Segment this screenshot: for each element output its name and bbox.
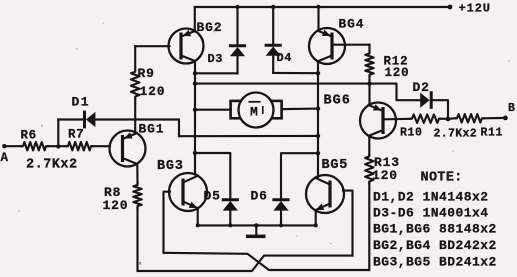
wire: node to R11: [448, 117, 455, 120]
svg-text:BG2: BG2: [197, 20, 223, 35]
wire: BG4 base to R12: [333, 44, 370, 46]
wire: BG2 base to R9: [135, 45, 169, 47]
wire: junction up to D1: [57, 120, 59, 147]
svg-text:D2: D2: [413, 80, 430, 95]
svg-text:R6: R6: [21, 129, 37, 143]
diode D6 (cathode up): [272, 198, 289, 201]
resistor R7 (2.7K): [66, 142, 93, 150]
wire: BG1 emitter down to R8: [136, 164, 138, 183]
wire: BG4 emitter to +12V rail: [317, 7, 319, 30]
svg-text:BG1,BG6 88148x2: BG1,BG6 88148x2: [373, 222, 497, 237]
node: D2 / R10 / R11 junction: [446, 117, 451, 122]
svg-text:BG5: BG5: [322, 158, 349, 173]
wire: BG2 emitter to +12V rail: [194, 7, 196, 32]
node: motor-left / bus junction: [193, 108, 197, 112]
wire: branch to D2 anode: [370, 84, 421, 101]
svg-text:D5: D5: [204, 189, 221, 204]
wire: D5 top stub from left bus: [195, 153, 230, 200]
node: D3 top rail junction: [235, 5, 239, 9]
ground symbol: [255, 225, 257, 234]
node: D5 stub / left bus junction: [193, 151, 197, 155]
wire: R11 to terminal B: [484, 117, 505, 120]
wire: D1 anode right, over R9 line, down to motor-right row: [95, 120, 179, 137]
node: D4 top rail junction: [271, 5, 275, 9]
resistor R6 (2.7K): [21, 142, 48, 150]
svg-text:120: 120: [372, 168, 398, 183]
wire: left bus (BG2 collector down to BG3 collector): [194, 61, 196, 174]
node: D6 stub / right bus junction: [316, 151, 320, 155]
transistor BG4 (PNP upper-right, mirrored): [330, 33, 333, 60]
wire: BG5 emitter down to ground line: [315, 211, 317, 225]
motor M: [231, 101, 241, 118]
wire: D2 cathode to R10/R11 node: [431, 100, 448, 119]
svg-text:+12U: +12U: [459, 1, 491, 15]
svg-text:BG2,BG4 BD242x2: BG2,BG4 BD242x2: [373, 238, 497, 253]
svg-text:120: 120: [103, 198, 129, 213]
wire: R13 bottom to crossover line: [368, 184, 370, 271]
wire: R7 to BG1 base: [93, 145, 110, 147]
wire: output row to D2 branch (motor-left sense): [195, 83, 370, 85]
svg-text:D4: D4: [277, 51, 293, 65]
svg-text:BG4: BG4: [339, 17, 365, 32]
wire: BG5 base right and down: [343, 191, 353, 256]
svg-text:R11: R11: [481, 127, 504, 140]
node: row / right bus junction: [316, 134, 320, 138]
node: BG5 emitter / ground line: [314, 223, 318, 227]
diode D3 (flyback, cathode up to rail): [236, 7, 238, 46]
wire: BG3 base left and down: [164, 192, 171, 253]
node: D3 / left bus junction: [193, 71, 197, 75]
transistor BG3: [181, 179, 184, 206]
node: BG4 emitter rail junction: [316, 5, 320, 9]
wire: crossover upper-left (BG3 base) to lower-right (R13): [164, 253, 369, 270]
wire: motor right lead: [282, 108, 318, 111]
wire: R6 to R7: [48, 145, 66, 147]
wire: motor left lead: [195, 109, 231, 111]
wire: R9 to BG1 collector: [134, 99, 136, 133]
node: D4 / right bus junction: [316, 71, 320, 75]
svg-text:R9: R9: [138, 66, 155, 81]
node: D5 / ground line: [228, 223, 232, 227]
svg-text:D1: D1: [72, 94, 90, 109]
node A terminal dot: [2, 144, 6, 148]
wire: row to right bus (motor right): [179, 135, 318, 137]
svg-text:M: M: [250, 105, 258, 120]
svg-text:D1,D2 1N4148x2: D1,D2 1N4148x2: [373, 189, 489, 204]
resistor R9 (120): [131, 70, 139, 99]
svg-text:120: 120: [140, 84, 166, 99]
diode D4 (flyback, cathode up to rail): [272, 7, 274, 45]
transistor BG2 (PNP upper-left): [179, 33, 182, 60]
transistor BG1: [121, 135, 124, 162]
diode D1 (points left, cathode left): [83, 111, 86, 129]
node: D6 / ground line: [279, 223, 283, 227]
wire: to D1 cathode: [58, 118, 84, 120]
node: BG3 emitter / ground line: [196, 223, 200, 227]
wire: BG3 emitter down to ground line: [197, 209, 199, 226]
wire: right bus (BG4 collector down to BG5 collector): [317, 62, 319, 178]
svg-text:BG3,BG5 BD241x2: BG3,BG5 BD241x2: [373, 254, 497, 269]
wire: emitter ground line: [198, 224, 316, 226]
resistor R11 (2.7K): [455, 114, 484, 122]
diode D5 (cathode up): [222, 198, 239, 201]
diode D2 (points right): [420, 93, 429, 108]
wire: R12 bottom to BG6 collector: [368, 77, 370, 105]
svg-text:D6: D6: [251, 189, 268, 204]
svg-text:D3-D6 1N4001x4: D3-D6 1N4001x4: [373, 205, 489, 220]
svg-text:120: 120: [385, 66, 410, 80]
wire: R8 down to crossover lower-left line: [136, 208, 138, 270]
svg-text:2.7Kx2: 2.7Kx2: [26, 158, 78, 173]
transistor BG6 (driver, mirrored): [381, 107, 384, 134]
transistor BG5 (mirrored): [328, 181, 331, 208]
svg-text:BG1: BG1: [139, 122, 165, 137]
node: terminal B dot: [503, 116, 508, 121]
wire: A to R6: [4, 145, 21, 147]
svg-text:B: B: [508, 102, 515, 115]
svg-text:2.7Kx2: 2.7Kx2: [434, 128, 478, 141]
svg-text:NOTE:: NOTE:: [421, 171, 463, 186]
node: motor-right / bus junction: [316, 106, 320, 110]
wire: BG6 base to R10: [384, 118, 411, 121]
wire: D4 bottom to right bus: [273, 72, 318, 74]
svg-text:D3: D3: [208, 52, 224, 66]
resistor R10 (2.7K): [410, 115, 441, 123]
wire: D3 bottom to left bus: [195, 72, 238, 74]
node: D1 branch junction: [56, 144, 60, 148]
wire: crossover lower-left (R8) to upper-right (BG5 base): [138, 256, 353, 271]
wire: R10 to node: [441, 118, 448, 120]
wire: +12V supply rail: [195, 6, 450, 8]
svg-text:A: A: [1, 151, 9, 165]
node: row / R12 / BG6 collector junction: [367, 81, 371, 85]
wire: BG6 emitter to R13: [368, 137, 370, 154]
node: ground stub junction: [254, 223, 258, 227]
svg-text:BG3: BG3: [157, 159, 184, 174]
svg-text:BG6: BG6: [324, 94, 351, 109]
resistor R8 (120): [133, 183, 141, 208]
resistor R12 (120): [365, 52, 373, 77]
node: +12V terminal dot: [448, 5, 453, 10]
svg-text:R7: R7: [68, 128, 84, 142]
node: row / left bus junction: [193, 81, 197, 85]
wire: D6 top stub from right bus: [281, 153, 318, 200]
scan speckles: [41, 31, 331, 265]
svg-text:R10: R10: [400, 127, 423, 140]
resistor R13 (120): [365, 154, 373, 183]
